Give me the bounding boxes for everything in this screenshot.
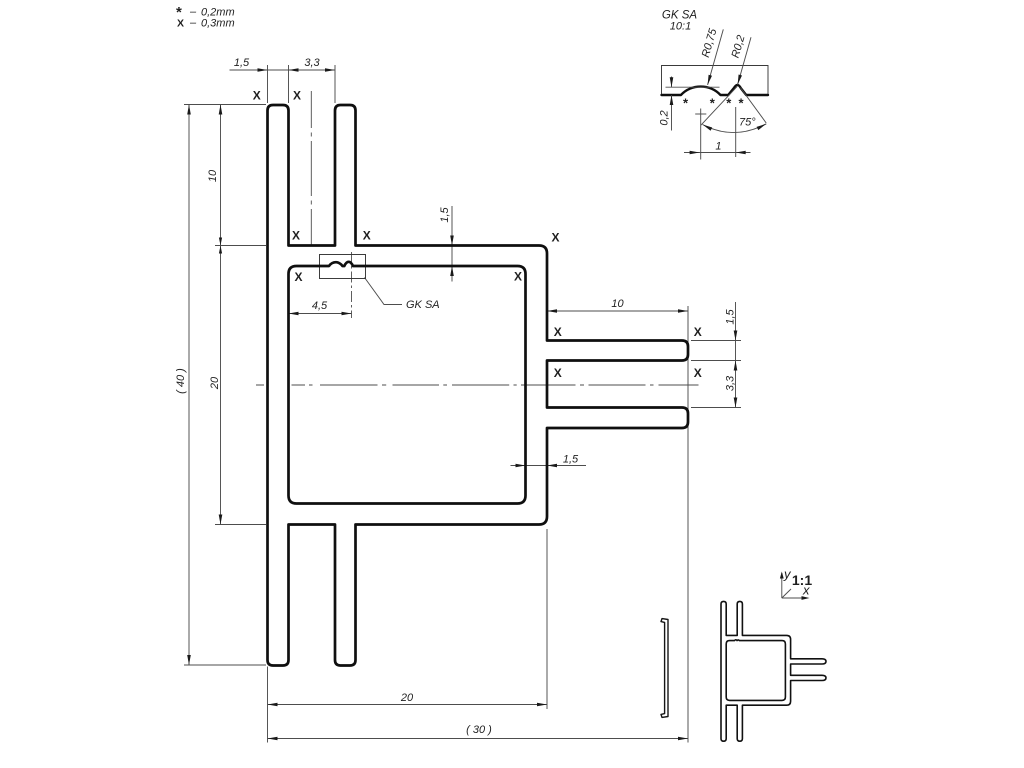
svg-text:X: X bbox=[694, 325, 702, 339]
main profile inner contour with GK SA serration bbox=[289, 262, 526, 504]
svg-text:10: 10 bbox=[611, 298, 624, 310]
center cross R0,75 bbox=[695, 109, 706, 160]
svg-text:X: X bbox=[253, 89, 261, 103]
GK SA detail box bbox=[320, 255, 366, 279]
svg-text:X: X bbox=[363, 229, 371, 243]
svg-text:X: X bbox=[554, 325, 562, 339]
dimension 3,3 right flange bbox=[691, 375, 741, 408]
svg-text:X: X bbox=[292, 229, 300, 243]
dimension 1,5 right flange bbox=[691, 302, 741, 408]
profile 1:1 outer contour bbox=[721, 601, 826, 741]
detail title GK SA 10:1 bbox=[662, 10, 697, 33]
centerline vertical top slot bbox=[310, 91, 312, 246]
detail tangent line bbox=[666, 86, 720, 88]
svg-text:20: 20 bbox=[400, 692, 414, 704]
dimension 1 detail bbox=[684, 107, 751, 157]
X surface marks bbox=[253, 89, 702, 381]
svg-text:3,3: 3,3 bbox=[725, 375, 737, 391]
dimension 0,2 detail bbox=[659, 77, 674, 131]
dimension 4,5 bbox=[289, 300, 352, 315]
svg-text:X: X bbox=[294, 270, 302, 284]
centerline GK SA detail bbox=[351, 252, 353, 318]
dimension 1,5 top bbox=[230, 57, 336, 103]
svg-text:0,2: 0,2 bbox=[659, 110, 671, 125]
dimension (30) bottom bbox=[268, 724, 689, 740]
svg-text:X: X bbox=[554, 366, 562, 380]
main profile outer contour bbox=[268, 105, 689, 666]
dimension 3,3 top bbox=[304, 57, 335, 103]
leader R0,2 bbox=[730, 34, 751, 85]
dimension 10 left bbox=[207, 105, 266, 525]
svg-text:1,5: 1,5 bbox=[439, 206, 451, 222]
dimension 20 left bbox=[209, 246, 266, 525]
axis icon 1:1 bbox=[780, 567, 812, 600]
dimension 1,5 right wall bbox=[511, 454, 587, 468]
svg-text:75°: 75° bbox=[739, 117, 756, 129]
svg-text:X: X bbox=[551, 231, 559, 245]
legend bbox=[176, 4, 235, 30]
svg-text:GK SA: GK SA bbox=[406, 299, 440, 311]
GK SA leader and label bbox=[365, 278, 440, 312]
svg-text:1:1: 1:1 bbox=[792, 572, 812, 588]
svg-text:1,5: 1,5 bbox=[725, 308, 737, 324]
svg-text:0,3mm: 0,3mm bbox=[201, 18, 235, 30]
svg-text:10: 10 bbox=[207, 169, 219, 182]
angle 75 flank lines bbox=[701, 86, 766, 132]
dimension 1,5 top wall bbox=[439, 206, 454, 282]
svg-text:1,5: 1,5 bbox=[234, 57, 250, 69]
svg-text:10:1: 10:1 bbox=[670, 21, 691, 33]
svg-text:3,3: 3,3 bbox=[304, 57, 320, 69]
dimension (40) left bbox=[175, 105, 266, 666]
svg-text:X: X bbox=[514, 270, 522, 284]
centerline horizontal bbox=[256, 384, 699, 386]
svg-text:X: X bbox=[293, 89, 301, 103]
svg-text:( 40 ): ( 40 ) bbox=[175, 368, 187, 394]
svg-text:1,5: 1,5 bbox=[563, 454, 579, 466]
svg-text:( 30 ): ( 30 ) bbox=[466, 724, 492, 736]
detail surface profile with bumps bbox=[662, 85, 769, 95]
detail material rectangle bbox=[662, 66, 769, 96]
dimension 20 bottom bbox=[268, 529, 548, 743]
dimension 10 right flange bbox=[547, 298, 688, 743]
gasket strip 1:1 bbox=[661, 619, 668, 718]
svg-text:X: X bbox=[177, 18, 184, 30]
asterisk marks detail bbox=[683, 96, 745, 111]
svg-text:–: – bbox=[189, 17, 197, 29]
svg-text:1: 1 bbox=[715, 141, 721, 153]
svg-text:4,5: 4,5 bbox=[312, 300, 328, 312]
leader R0,75 bbox=[700, 27, 723, 85]
profile 1:1 inner contour bbox=[726, 640, 785, 701]
svg-text:20: 20 bbox=[209, 376, 221, 390]
svg-text:X: X bbox=[694, 366, 702, 380]
